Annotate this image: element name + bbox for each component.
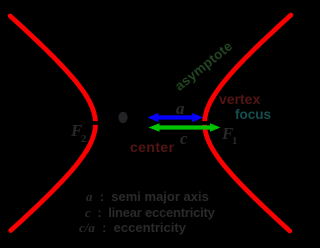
legend line 2: c : linear eccentricity [85, 205, 215, 221]
label asymptote (rotated dark green) [172, 38, 235, 93]
label focus (dark teal) [235, 107, 271, 122]
label F1 (right focus) [222, 124, 239, 144]
dark point marker (near-invisible dark blob left of arrows) [118, 112, 127, 123]
label vertex (dark red) [219, 91, 260, 107]
label a (above blue arrow) [176, 99, 185, 119]
blue double arrow a : center to vertex [157, 115, 194, 119]
legend line 1: a : semi major axis [86, 189, 209, 205]
label F2 (left focus) [71, 121, 88, 141]
label c (below green arrow) [180, 129, 188, 149]
label center (dark red) [130, 139, 174, 155]
x-axis (black, invisible on bg, cuts the red curve at the vertices) [60, 121, 245, 125]
hyperbola left branch [10, 16, 95, 231]
legend line 3: c/a : eccentricity [79, 220, 186, 236]
hyperbola right branch [205, 15, 291, 231]
green double arrow c : center to focus [158, 125, 211, 129]
